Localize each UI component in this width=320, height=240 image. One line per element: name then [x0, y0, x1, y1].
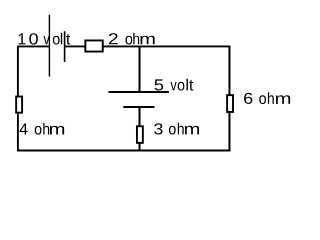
resistor R6 (6 ohm) — [227, 95, 233, 112]
battery B1 short plate (negative) — [64, 31, 66, 62]
wire top-right segment (R2 to top-right corner) — [103, 45, 230, 47]
label B2 value "5" — [155, 79, 164, 90]
wire middle vertical upper (node to battery B2) — [139, 46, 141, 91]
label B1 unit "volt" — [44, 33, 71, 45]
resistor R3 (3 ohm) — [137, 126, 143, 143]
resistor R2 (2 ohm) — [85, 40, 102, 51]
resistor R4 (4 ohm) — [16, 97, 22, 113]
label R4 "4 ohm" — [20, 123, 65, 135]
label B2 unit "volt" — [171, 79, 194, 91]
battery B1 long plate (positive) — [48, 15, 50, 77]
label R2 unit "ohm" — [126, 33, 155, 45]
wire left vertical upper — [17, 46, 19, 97]
wire top-middle segment (battery B1 to resistor R2) — [65, 45, 85, 47]
wire right vertical upper — [228, 46, 230, 95]
label R6 unit "ohm" — [259, 92, 290, 104]
wire left vertical lower — [17, 114, 19, 151]
wire right vertical lower — [228, 112, 230, 151]
wire bottom — [17, 150, 230, 152]
label B1 value "10" — [19, 33, 38, 44]
wire R3 to bottom wire — [139, 144, 141, 152]
battery B2 long plate (positive) — [109, 91, 169, 93]
label R2 value "2" — [109, 33, 118, 44]
wire middle vertical lower (B2 to resistor R3) — [139, 107, 141, 126]
label R3 "3 ohm" — [154, 123, 199, 135]
wire top-left segment — [17, 45, 49, 47]
battery B2 short plate (negative) — [123, 106, 154, 108]
label R6 value "6" — [244, 93, 252, 104]
